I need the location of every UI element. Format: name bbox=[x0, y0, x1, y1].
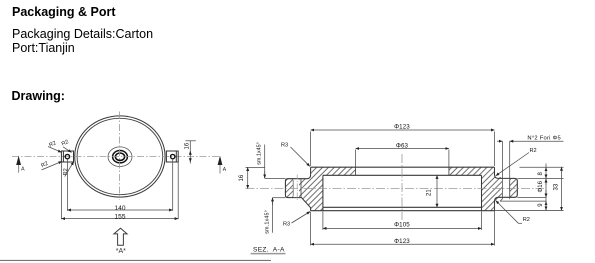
svg-text:Φ123: Φ123 bbox=[394, 238, 410, 245]
svg-text:8: 8 bbox=[538, 172, 544, 176]
svg-text:R2: R2 bbox=[48, 140, 57, 148]
svg-text:R2: R2 bbox=[61, 139, 70, 147]
svg-text:R2: R2 bbox=[523, 217, 530, 223]
svg-text:R2: R2 bbox=[63, 168, 69, 175]
svg-text:16: 16 bbox=[239, 174, 245, 181]
svg-text:Φ105: Φ105 bbox=[394, 221, 410, 228]
svg-text:sm.1x45°: sm.1x45° bbox=[264, 210, 270, 234]
svg-text:9: 9 bbox=[538, 203, 544, 207]
svg-text:*A*: *A* bbox=[116, 248, 126, 255]
svg-text:R2: R2 bbox=[530, 148, 537, 154]
svg-text:R3: R3 bbox=[283, 222, 290, 228]
svg-text:Φ63: Φ63 bbox=[396, 142, 409, 149]
svg-text:140: 140 bbox=[114, 205, 125, 212]
svg-text:Φ123: Φ123 bbox=[394, 124, 410, 131]
svg-text:sm.1x45°: sm.1x45° bbox=[257, 142, 263, 165]
svg-text:R2: R2 bbox=[40, 161, 49, 169]
svg-text:R3: R3 bbox=[281, 142, 288, 148]
svg-text:Φ16: Φ16 bbox=[538, 180, 544, 192]
svg-text:33: 33 bbox=[554, 183, 560, 190]
svg-text:A: A bbox=[223, 167, 227, 173]
svg-text:21: 21 bbox=[427, 189, 433, 196]
svg-text:SEZ. A-A: SEZ. A-A bbox=[253, 246, 285, 253]
svg-text:A: A bbox=[21, 167, 25, 173]
svg-text:155: 155 bbox=[114, 213, 125, 220]
svg-text:16: 16 bbox=[185, 142, 191, 149]
svg-text:N°2 Fori Φ5: N°2 Fori Φ5 bbox=[527, 135, 561, 141]
